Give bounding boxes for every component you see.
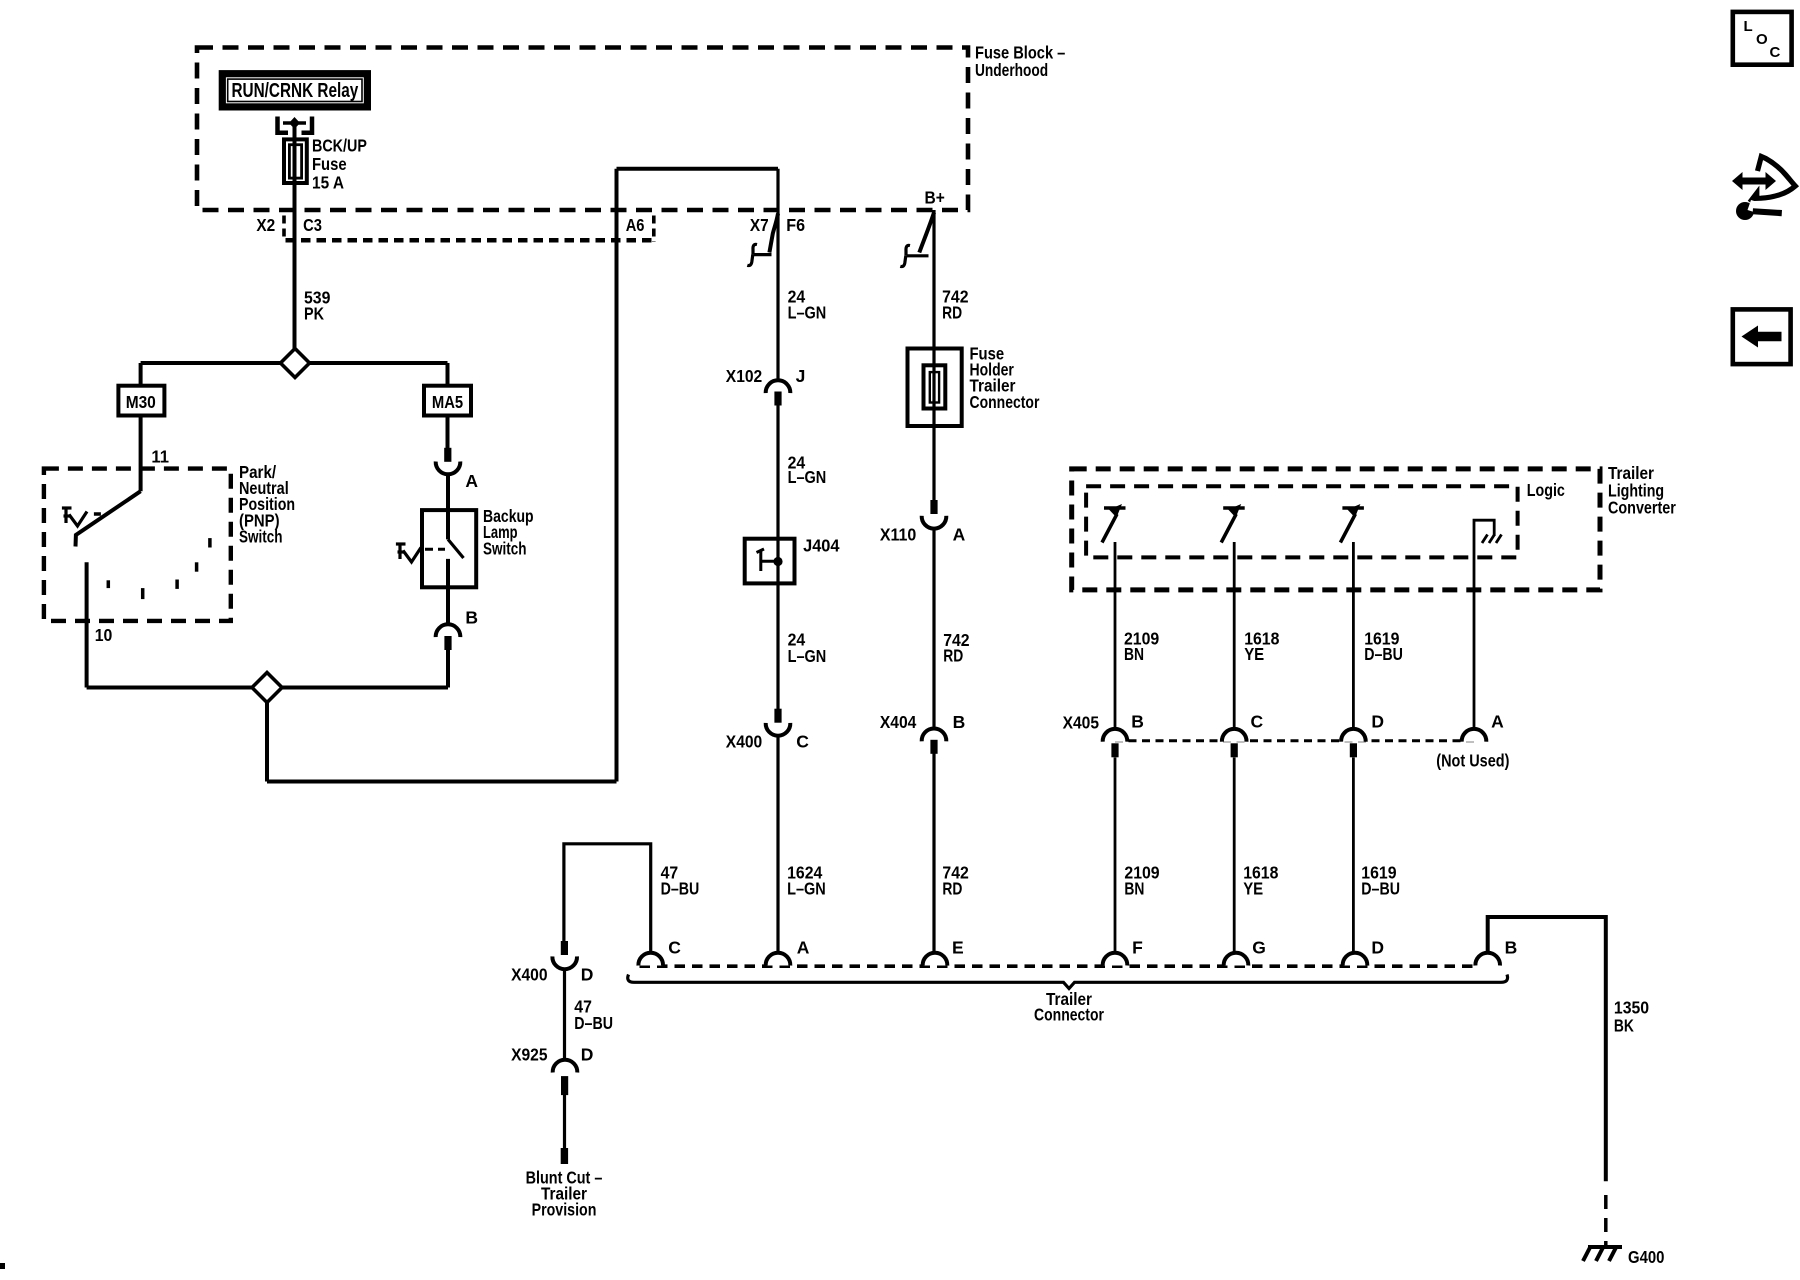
svg-text:X400: X400 <box>511 964 548 984</box>
svg-text:15 A: 15 A <box>312 173 344 193</box>
svg-text:D–BU: D–BU <box>1361 879 1400 899</box>
svg-text:10: 10 <box>95 625 113 645</box>
svg-text:B: B <box>953 712 966 732</box>
svg-text:RD: RD <box>943 646 963 666</box>
svg-text:C3: C3 <box>303 215 322 235</box>
svg-text:Underhood: Underhood <box>975 60 1048 80</box>
svg-text:1350: 1350 <box>1614 998 1649 1018</box>
svg-text:F6: F6 <box>786 215 805 235</box>
svg-text:C: C <box>796 732 809 752</box>
svg-text:B: B <box>465 608 478 628</box>
svg-text:D: D <box>581 1045 594 1065</box>
svg-text:X2: X2 <box>256 215 275 235</box>
svg-text:RD: RD <box>942 879 962 899</box>
svg-text:F: F <box>1132 938 1143 958</box>
svg-text:Logic: Logic <box>1527 480 1565 500</box>
svg-text:C: C <box>1251 711 1264 731</box>
svg-text:MA5: MA5 <box>432 392 464 412</box>
svg-text:BCK/UP: BCK/UP <box>312 136 367 156</box>
svg-text:D–BU: D–BU <box>661 879 700 899</box>
svg-text:X7: X7 <box>750 215 769 235</box>
svg-text:A: A <box>953 525 966 545</box>
svg-text:(Not Used): (Not Used) <box>1436 751 1509 771</box>
svg-text:L–GN: L–GN <box>788 303 827 323</box>
svg-text:J: J <box>796 366 806 386</box>
svg-text:D–BU: D–BU <box>1364 644 1403 664</box>
svg-text:L–GN: L–GN <box>788 467 827 487</box>
svg-text:X400: X400 <box>726 732 763 752</box>
svg-text:X110: X110 <box>880 525 917 545</box>
svg-text:X102: X102 <box>726 366 763 386</box>
svg-text:BK: BK <box>1614 1016 1634 1036</box>
svg-text:C: C <box>668 938 681 958</box>
svg-text:Switch: Switch <box>239 526 283 546</box>
svg-text:Connector: Connector <box>970 392 1040 412</box>
svg-text:A6: A6 <box>626 215 645 235</box>
svg-text:Connector: Connector <box>1034 1005 1104 1025</box>
svg-text:Switch: Switch <box>483 539 527 559</box>
svg-text:Converter: Converter <box>1608 498 1676 518</box>
svg-text:A: A <box>797 938 810 958</box>
svg-text:G400: G400 <box>1628 1247 1665 1267</box>
svg-text:YE: YE <box>1243 879 1263 899</box>
svg-text:B: B <box>1131 711 1144 731</box>
svg-text:D: D <box>1371 938 1384 958</box>
svg-text:A: A <box>465 471 478 491</box>
svg-text:A: A <box>1491 711 1504 731</box>
svg-text:L: L <box>1744 18 1753 35</box>
svg-text:X405: X405 <box>1063 713 1100 733</box>
svg-text:O: O <box>1756 31 1768 48</box>
svg-text:J404: J404 <box>803 536 840 556</box>
svg-text:C: C <box>1770 44 1781 61</box>
svg-text:B+: B+ <box>925 188 945 208</box>
svg-text:G: G <box>1252 938 1266 958</box>
svg-text:Fuse: Fuse <box>312 154 347 174</box>
svg-text:YE: YE <box>1244 644 1264 664</box>
svg-text:RUN/CRNK Relay: RUN/CRNK Relay <box>232 79 359 102</box>
svg-text:L–GN: L–GN <box>788 646 827 666</box>
svg-text:D: D <box>1371 711 1384 731</box>
svg-text:X404: X404 <box>880 712 917 732</box>
svg-text:X925: X925 <box>511 1045 548 1065</box>
svg-text:E: E <box>952 938 964 958</box>
svg-text:RD: RD <box>942 303 962 323</box>
svg-text:11: 11 <box>151 447 169 467</box>
svg-text:M30: M30 <box>126 392 156 412</box>
svg-text:B: B <box>1505 938 1518 958</box>
svg-text:D–BU: D–BU <box>574 1013 613 1033</box>
svg-text:L–GN: L–GN <box>787 879 826 899</box>
svg-text:D: D <box>581 964 594 984</box>
svg-text:PK: PK <box>304 304 324 324</box>
svg-text:BN: BN <box>1124 879 1144 899</box>
svg-text:BN: BN <box>1124 644 1144 664</box>
svg-text:Provision: Provision <box>532 1200 597 1220</box>
